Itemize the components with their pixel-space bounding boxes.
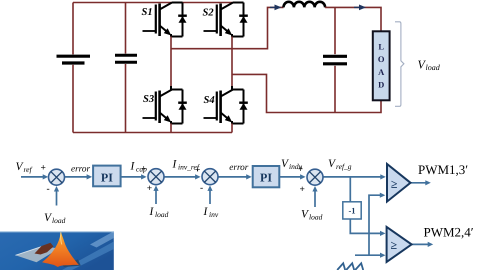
svg-text:S2: S2 [203, 7, 215, 18]
wire battery bottom lead [72, 65, 74, 133]
wire Vref in [21, 176, 46, 178]
load block [373, 31, 390, 100]
arrowhead into C2 [141, 174, 147, 179]
svg-text:I: I [172, 159, 178, 171]
banner top light line [0, 231, 114, 232]
wire dc-cap top lead [125, 3, 127, 54]
svg-text:inv: inv [209, 210, 219, 219]
gain -1 box [343, 202, 361, 219]
arrowhead into C3 [195, 174, 201, 179]
svg-text:-: - [200, 184, 203, 194]
arrowhead Iinv into C3 [207, 185, 212, 191]
svg-text:S4: S4 [204, 95, 215, 106]
wire comp2 out [412, 243, 431, 245]
wire right leg mid [231, 37, 233, 87]
svg-text:L: L [378, 42, 384, 52]
svg-text:I: I [203, 206, 209, 218]
summing junction C4 [307, 169, 323, 185]
wire Vload feed C4 [314, 190, 316, 208]
arrowhead into PI2 [246, 174, 252, 179]
wire right leg output to load bottom [232, 74, 381, 112]
svg-text:ref: ref [24, 165, 33, 174]
transistor S2 [204, 3, 248, 37]
svg-text:I: I [149, 206, 155, 218]
light diagonal band [62, 242, 114, 270]
arrowhead Vload into C1 [54, 186, 59, 192]
wire S4 emitter to bus [231, 124, 233, 133]
wire C1 to PI1 [65, 176, 90, 178]
PI box 2 [253, 166, 280, 187]
wire C2 to C3 [164, 176, 198, 178]
wire junction to -1 box [349, 177, 351, 202]
svg-text:load: load [426, 63, 441, 72]
wire bottom bus [73, 132, 232, 134]
arrowhead carrier into U2 [380, 253, 386, 258]
summing junction C3 [202, 169, 218, 185]
svg-text:load: load [309, 212, 323, 221]
arrow current in [275, 5, 282, 11]
svg-text:S1: S1 [142, 7, 153, 18]
wire filter cap top lead [334, 7, 336, 54]
comparator U1 [387, 164, 411, 202]
wire carrier to comp2 [355, 254, 383, 256]
arrowhead into C4 [300, 174, 306, 179]
wire PI1 to C2 [121, 176, 144, 178]
arrowhead -1 output into U2 [380, 231, 386, 236]
svg-text:load: load [52, 216, 66, 225]
dark maroon fold [35, 243, 54, 255]
PI box 1 [93, 166, 121, 187]
wire C4 to comp1 [323, 176, 383, 178]
wire dc-cap bottom lead [125, 64, 127, 133]
svg-text:PI: PI [101, 170, 113, 184]
arrowhead U2 output [428, 242, 434, 247]
svg-text:≥: ≥ [391, 238, 398, 252]
dark navy wedge [61, 260, 81, 268]
wire top bus [73, 2, 244, 4]
svg-text:D: D [378, 80, 384, 90]
shadow membrane [16, 246, 60, 262]
summing junction C2 [148, 169, 164, 185]
svg-text:inv_ref: inv_ref [178, 163, 200, 172]
wire PI2 to C4 [279, 176, 303, 178]
wire -1 box to comp2 [350, 219, 383, 233]
arrow current out [359, 5, 366, 11]
wire C3 to PI2 [218, 176, 249, 178]
arrowhead Vload into C4 [312, 186, 317, 192]
arrowhead U1 output [425, 180, 431, 185]
svg-text:+: + [41, 164, 46, 174]
svg-text:S3: S3 [143, 94, 154, 105]
wire Iinv feed C3 [209, 189, 211, 204]
battery B1 [57, 56, 91, 63]
wire left leg mid [170, 37, 172, 87]
capacitor Cf [323, 56, 347, 64]
svg-text:I: I [130, 160, 136, 172]
svg-text:cap: cap [136, 164, 147, 173]
wire filter cap bottom lead [334, 66, 336, 113]
arrowhead into comparator U1 [380, 174, 386, 179]
svg-text:-: - [47, 185, 50, 195]
svg-text:O: O [378, 54, 385, 64]
arrowhead Iload into C2 [153, 185, 158, 191]
transistor S1 [143, 3, 187, 37]
svg-text:PI: PI [260, 171, 272, 185]
capacitor Cdc [115, 55, 137, 62]
svg-text:-1: -1 [348, 206, 355, 216]
arrowhead carrier into U1 [380, 193, 386, 198]
summing junction C1 [49, 169, 65, 185]
svg-text:indu: indu [289, 162, 303, 171]
carrier sawtooth [337, 263, 363, 270]
svg-text:+: + [147, 184, 152, 194]
svg-text:error: error [71, 164, 90, 174]
arrowhead into PI1 [87, 174, 93, 179]
svg-text:error: error [229, 162, 248, 172]
svg-text:PWM1,3′: PWM1,3′ [418, 162, 468, 177]
wire battery top lead [72, 3, 74, 55]
transistor S3 [143, 90, 187, 124]
wire inductor to load [325, 7, 381, 31]
wire Vload feed C1 [56, 190, 58, 206]
svg-text:≥: ≥ [391, 177, 398, 191]
svg-text:ref_g: ref_g [336, 162, 352, 171]
inductor L1 [284, 2, 326, 8]
svg-text:+: + [300, 185, 305, 195]
wire S3 emitter to bus [170, 124, 172, 133]
flame [42, 232, 79, 268]
transistor S4 [204, 90, 248, 124]
wire Iload feed C2 [155, 189, 157, 204]
comparator U2 [387, 227, 412, 262]
svg-text:PWM2,4′: PWM2,4′ [424, 225, 474, 240]
svg-text:load: load [155, 210, 169, 219]
svg-text:A: A [378, 67, 385, 77]
bracket [395, 22, 404, 107]
arrowhead into C1 [43, 174, 49, 179]
wire bridge output to inductor [171, 7, 284, 48]
matlab banner [0, 231, 114, 270]
wire carrier to comp1 [369, 195, 383, 255]
wire comp1 out [411, 182, 429, 184]
